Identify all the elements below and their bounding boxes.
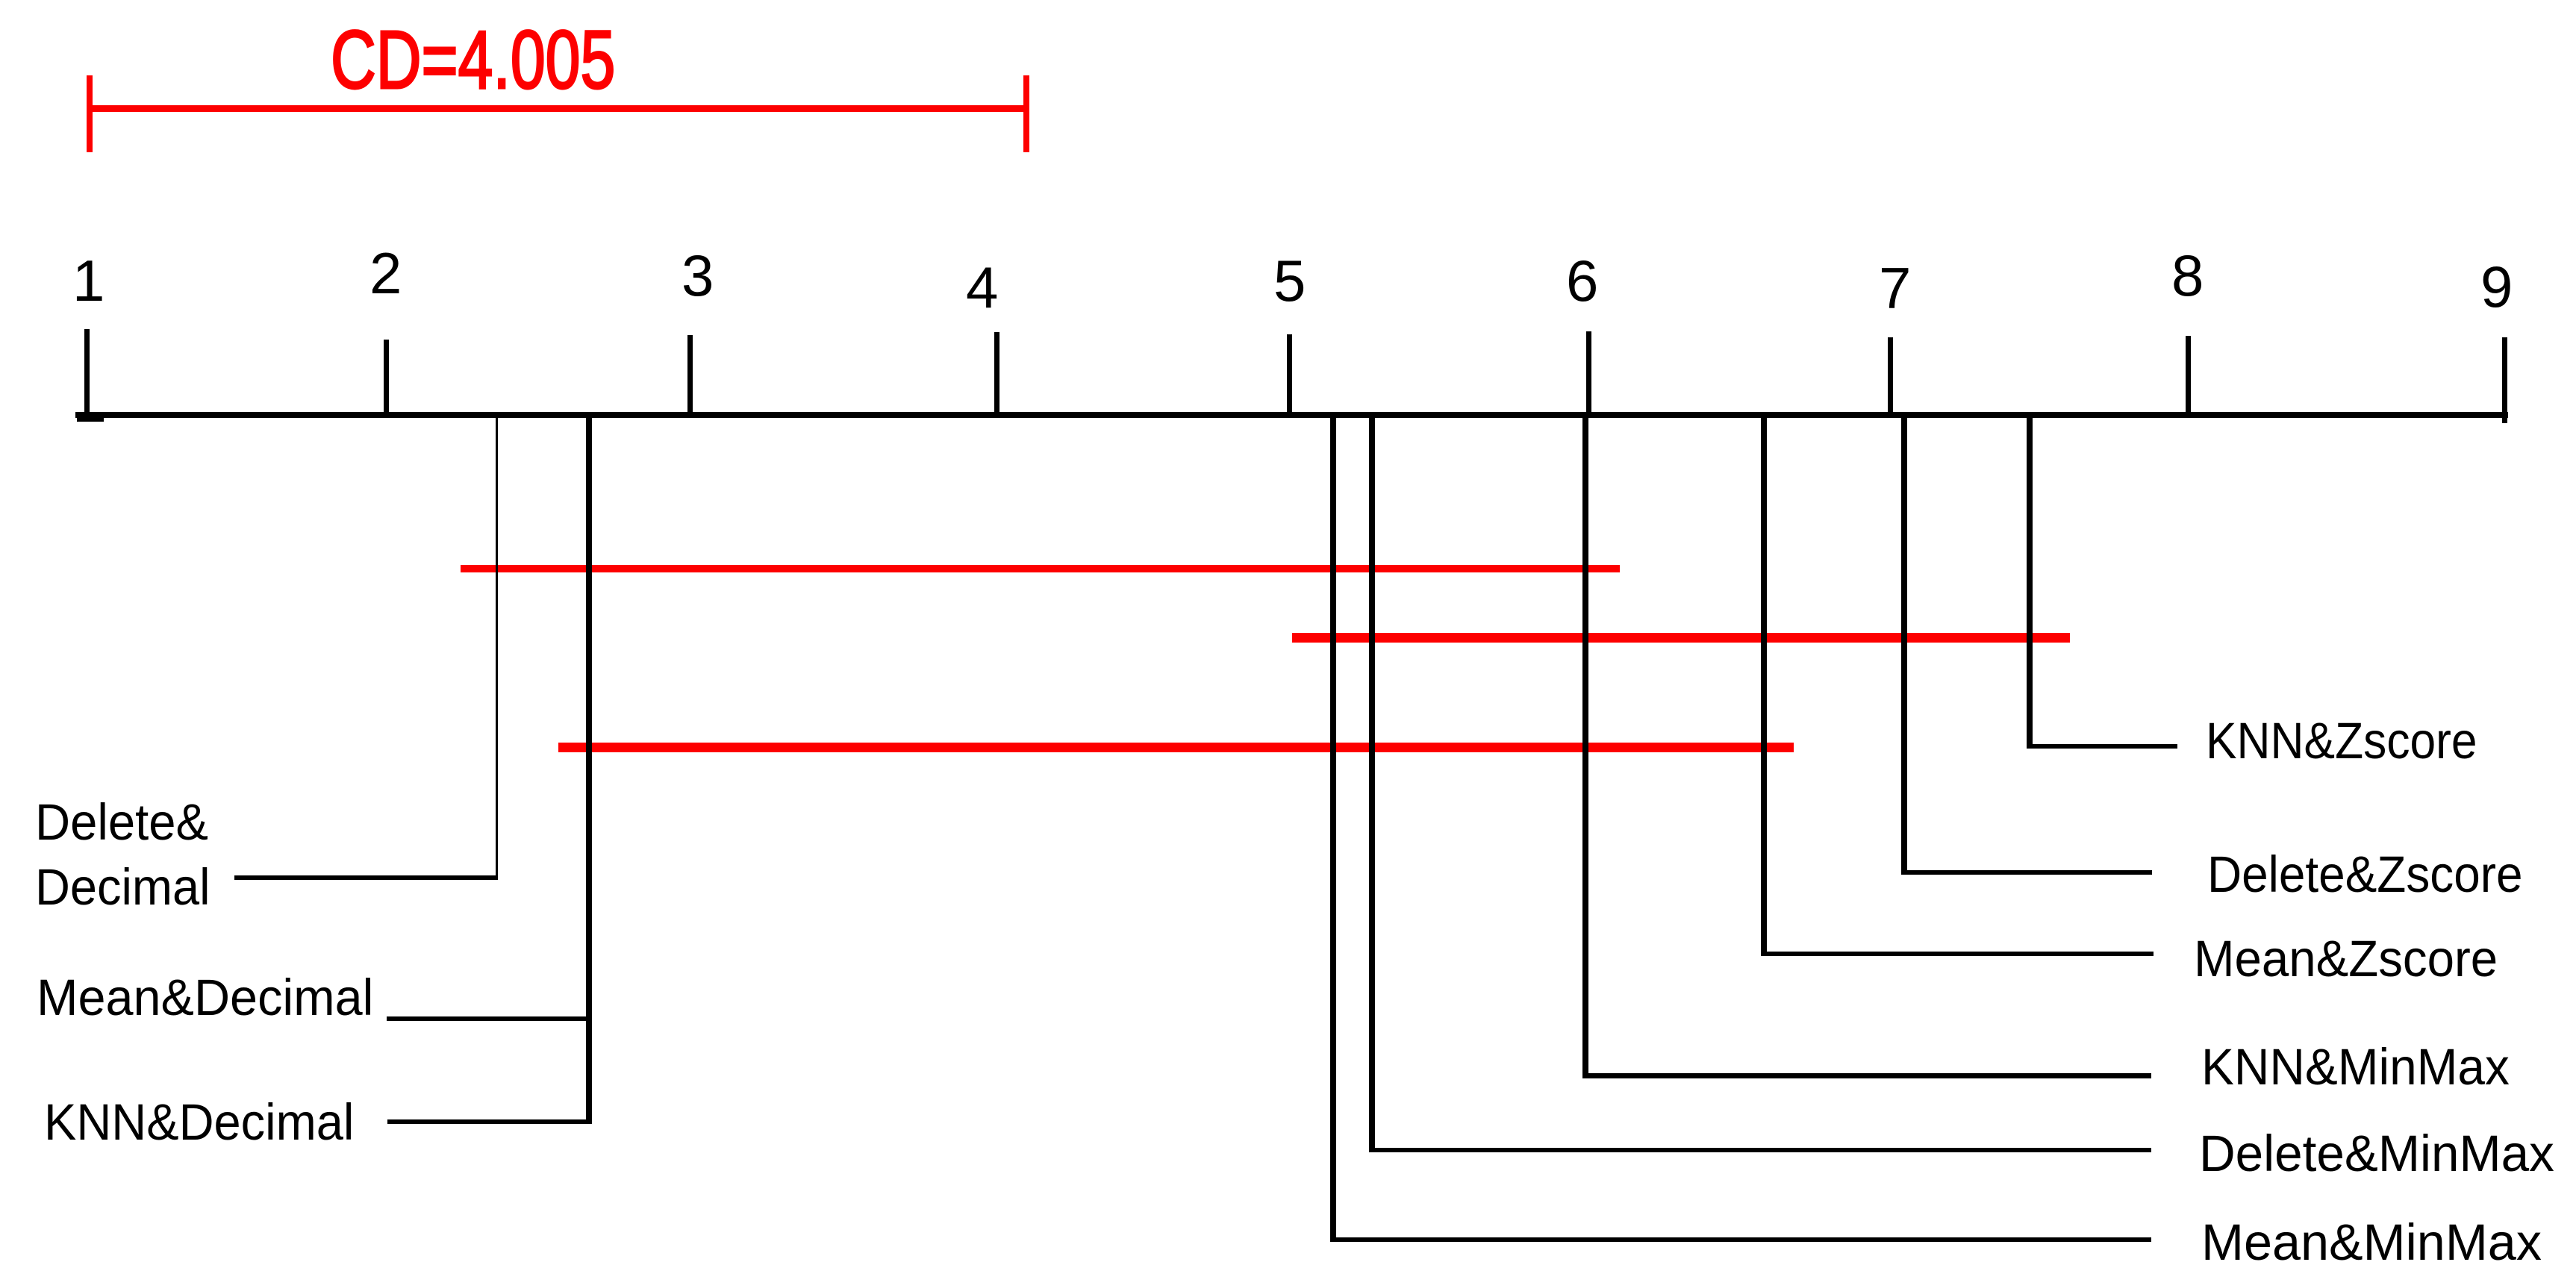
KNN&Decimal label xyxy=(44,1096,354,1148)
Mean&MinMax connector xyxy=(1330,1237,2151,1242)
axis tick 9 xyxy=(2502,337,2507,423)
Delete&Decimal label line 1 xyxy=(35,796,208,848)
Delete&Zscore label xyxy=(2207,849,2523,900)
red group line 3 (KNN&Decimal..KNN&Zscore) xyxy=(558,743,1794,752)
Mean&MinMax vertical xyxy=(1330,415,1336,1242)
Delete&Decimal label line 2 xyxy=(35,861,210,913)
axis number 7 xyxy=(1879,259,1911,317)
Mean&MinMax label xyxy=(2201,1216,2542,1265)
Mean&Decimal connector xyxy=(387,1016,592,1021)
Delete&Decimal connector xyxy=(234,875,498,880)
axis tick 8 xyxy=(2186,336,2191,415)
red group line 2 (Mean&MinMax..Delete&Zscore) xyxy=(1292,633,2070,643)
Delete&Decimal vertical (thin) xyxy=(496,415,498,880)
axis number 6 xyxy=(1566,252,1598,310)
axis tick 7 xyxy=(1888,337,1893,415)
axis tick 2 xyxy=(384,340,389,415)
KNN&Decimal connector xyxy=(387,1119,592,1124)
KNN&MinMax vertical xyxy=(1582,415,1588,1078)
CD bar line xyxy=(87,105,1029,112)
axis left end overlap ledge xyxy=(77,415,104,422)
KNN&Zscore label xyxy=(2206,715,2477,766)
Delete&MinMax label xyxy=(2199,1128,2554,1179)
Delete&MinMax vertical xyxy=(1369,415,1375,1152)
Mean&Decimal label xyxy=(37,972,373,1023)
Delete&MinMax connector xyxy=(1369,1148,2151,1152)
red group line 1 (Delete&Decimal..KNN&MinMax) xyxy=(461,565,1620,572)
Mean&Decimal / KNN&Decimal shared vertical xyxy=(586,415,592,1124)
axis number 4 xyxy=(966,258,998,316)
Delete&Zscore vertical xyxy=(1901,415,1907,875)
CD bar right tick xyxy=(1023,75,1029,152)
KNN&Zscore vertical xyxy=(2027,415,2033,749)
CD bar left tick xyxy=(87,75,93,152)
Delete&Zscore connector xyxy=(1901,870,2152,875)
KNN&MinMax connector xyxy=(1582,1073,2151,1078)
KNN&Zscore connector xyxy=(2027,744,2177,749)
Mean&Zscore vertical xyxy=(1761,415,1767,956)
axis number 9 xyxy=(2480,257,2513,316)
axis tick 5 xyxy=(1287,334,1292,415)
axis number 2 xyxy=(369,244,402,302)
axis number 3 xyxy=(682,246,714,304)
KNN&MinMax label xyxy=(2201,1041,2510,1093)
axis number 8 xyxy=(2171,246,2204,304)
Mean&Zscore connector xyxy=(1761,952,2154,956)
axis tick 6 xyxy=(1586,331,1591,415)
main axis line xyxy=(75,412,2508,418)
axis number 1 xyxy=(72,252,105,310)
Mean&Zscore label xyxy=(2194,933,2498,984)
axis tick 1 xyxy=(84,329,90,415)
CD value label xyxy=(331,19,615,101)
axis tick 4 xyxy=(994,332,999,415)
axis number 5 xyxy=(1273,252,1306,310)
axis tick 3 xyxy=(687,335,693,415)
